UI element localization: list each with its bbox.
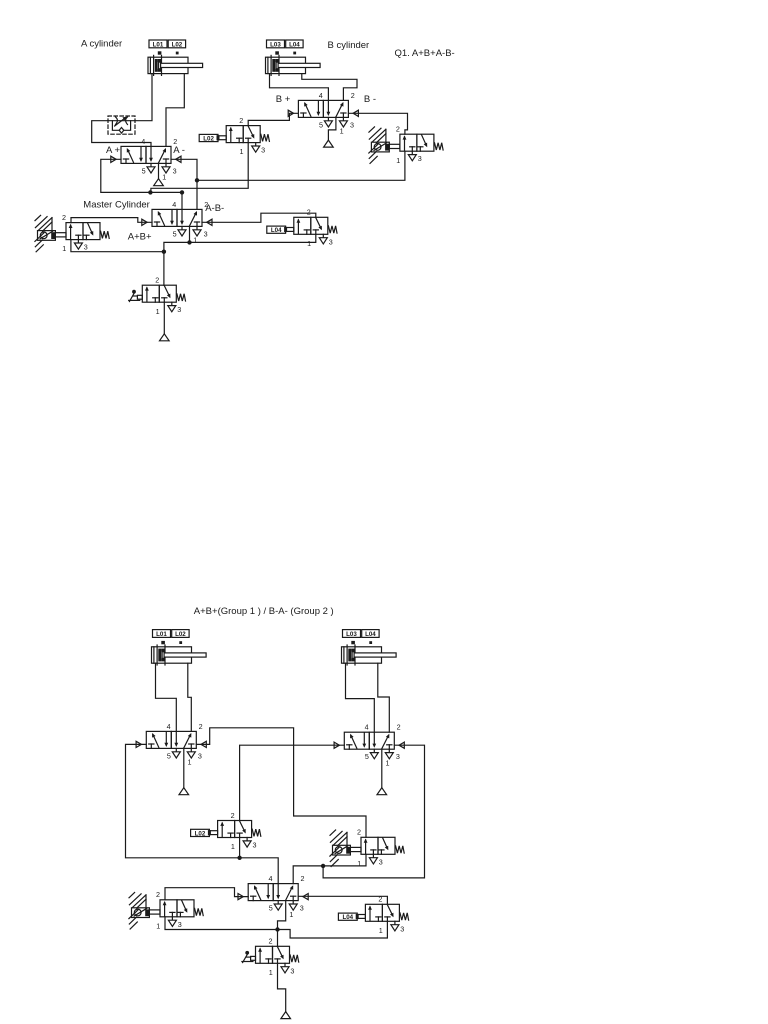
svg-text:2: 2 [351, 91, 355, 100]
svg-text:L03: L03 [270, 41, 281, 48]
sensor tags L03/L04 [343, 630, 380, 645]
junction [195, 178, 199, 182]
wire supply bus to wall valve a port 1 [71, 240, 164, 252]
svg-text:3: 3 [400, 924, 404, 933]
wire L02 valve port 1 to group1 bus [151, 143, 248, 193]
wire button valve 2 port 1 to supply [278, 963, 286, 1011]
sensor tags L01/L02 [153, 630, 190, 645]
5/2-way double pilot valve B [298, 91, 354, 136]
supply for valve B [324, 117, 336, 147]
svg-text:A -: A - [173, 145, 185, 156]
one-way flow control valve [108, 116, 135, 134]
pilot arrow master2 right [303, 894, 308, 900]
wire cylinder B2 left port to valve port 4 [346, 663, 375, 732]
wire A+ pilot from group1 bus [101, 159, 151, 192]
junction [180, 190, 184, 194]
double-acting cylinder B [266, 55, 321, 75]
svg-text:3: 3 [329, 237, 333, 246]
svg-text:4: 4 [365, 723, 369, 732]
svg-text:4: 4 [319, 91, 323, 100]
svg-text:L04: L04 [342, 914, 353, 921]
double-acting cylinder B2 [342, 645, 397, 665]
wire group1 bus to master port 4 [150, 192, 182, 209]
svg-text:3: 3 [261, 146, 265, 155]
svg-text:5: 5 [167, 751, 171, 760]
5/2-way double pilot valve A2 [146, 722, 202, 767]
svg-text:2: 2 [301, 874, 305, 883]
3/2-way valve roller a (wall) left [62, 213, 109, 253]
roller tag L04 [267, 226, 294, 234]
svg-text:2: 2 [231, 811, 235, 820]
svg-text:1: 1 [231, 842, 235, 851]
wire L04 port 2 to master right pilot [202, 213, 316, 222]
pilot arrow master2 left [238, 894, 243, 900]
svg-text:1: 1 [156, 921, 160, 930]
wire L04 valve 2 port 2 to master2 right pilot [298, 896, 387, 904]
wire wall valve a2 port 2 to master2 left pilot [165, 888, 248, 900]
svg-text:L04: L04 [289, 41, 300, 48]
svg-text:Master Cylinder: Master Cylinder [83, 200, 150, 211]
junction [237, 856, 241, 860]
svg-text:B cylinder: B cylinder [328, 40, 370, 51]
supply for valve A2 [179, 748, 189, 794]
pilot arrow valve A2 right [201, 741, 206, 747]
wire group2 bus to wall valve b port 1 [197, 151, 405, 180]
svg-text:2: 2 [397, 723, 401, 732]
wire supply bus 2 to L04 valve 2 port 1 [278, 921, 388, 938]
svg-text:3: 3 [290, 966, 294, 975]
svg-text:1: 1 [62, 244, 66, 253]
wire valve B port 2 to cylinder B right port [302, 74, 357, 101]
wire cylinder A left port to flow control [135, 74, 152, 121]
roller tag L02 [199, 134, 226, 142]
junction [148, 190, 152, 194]
roller against wall [330, 830, 361, 867]
pilot arrow master left [142, 219, 147, 225]
svg-text:2: 2 [239, 116, 243, 125]
svg-text:A cylinder: A cylinder [81, 39, 122, 50]
svg-text:2: 2 [269, 937, 273, 946]
svg-text:B -: B - [364, 94, 376, 105]
sensor tags L01/L02 [149, 40, 186, 55]
svg-text:L01: L01 [153, 41, 164, 48]
svg-text:5: 5 [142, 166, 146, 175]
wire supply bus left [164, 242, 190, 251]
wire valve B port 4 to cylinder B left port [270, 74, 329, 101]
wire cylinder A2 left port to valve port 4 [156, 663, 177, 731]
roller against wall [369, 127, 400, 163]
3/2-way valve L04 roller [294, 208, 337, 248]
junction [162, 250, 166, 254]
svg-text:5: 5 [173, 229, 177, 238]
3/2-way valve start button 2 [256, 937, 299, 977]
svg-text:2: 2 [62, 213, 66, 222]
wire supply bus 2 to button valve 2 port 2 [277, 930, 279, 947]
svg-text:2: 2 [396, 125, 400, 134]
wire flow control to valve A port 4 [92, 121, 151, 147]
svg-text:1: 1 [269, 968, 273, 977]
roller against wall [129, 893, 160, 930]
svg-text:L03: L03 [346, 631, 357, 638]
junction [275, 927, 279, 931]
supply for button valve [160, 302, 170, 341]
svg-text:A +: A + [106, 145, 120, 156]
pilot arrow valve B2 left [334, 742, 339, 748]
svg-text:L02: L02 [195, 830, 206, 837]
svg-text:4: 4 [141, 137, 145, 146]
svg-text:3: 3 [204, 229, 208, 238]
supply for button valve 2 [281, 1012, 291, 1019]
svg-text:2: 2 [156, 890, 160, 899]
5/2-way double pilot valve B2 [344, 723, 400, 768]
3/2-way valve roller b (wall) right [396, 125, 443, 165]
svg-text:3: 3 [300, 904, 304, 913]
wire wall valve a port 2 to master left pilot [71, 218, 152, 223]
svg-text:1: 1 [162, 173, 166, 182]
svg-text:1: 1 [240, 147, 244, 156]
pilot arrow valve A2 left [136, 741, 141, 747]
wire cylinder B2 right port to valve port 2 [378, 663, 390, 732]
svg-text:1: 1 [357, 859, 361, 868]
svg-text:L04: L04 [365, 631, 376, 638]
roller tag L04 [338, 913, 365, 921]
wire L02 valve port 2 to B+ pilot [248, 113, 298, 125]
roller tag L02 [191, 829, 218, 837]
svg-text:1: 1 [396, 156, 400, 165]
svg-text:3: 3 [178, 920, 182, 929]
svg-text:1: 1 [156, 307, 160, 316]
svg-text:2: 2 [307, 208, 311, 217]
pilot arrow valve B2 right [399, 742, 404, 748]
svg-text:4: 4 [172, 200, 176, 209]
3/2-way valve L04 roller 2 [365, 895, 408, 935]
double-acting cylinder A2 [152, 645, 207, 665]
svg-text:3: 3 [396, 752, 400, 761]
junction [187, 240, 191, 244]
double-acting cylinder A [148, 55, 203, 75]
wire supply bus to button valve port 2 [163, 252, 165, 286]
pilot arrow B+ [288, 110, 293, 116]
pilot arrow A- [176, 156, 181, 162]
svg-text:L02: L02 [175, 631, 186, 638]
wire master2 port 2 to wall valve b2 port 1 [293, 854, 366, 883]
svg-text:Q1. A+B+A-B-: Q1. A+B+A-B- [395, 48, 455, 59]
wire master port 1 down [189, 226, 191, 242]
svg-text:3: 3 [418, 154, 422, 163]
svg-text:3: 3 [173, 166, 177, 175]
junction [321, 864, 325, 868]
svg-text:2: 2 [155, 276, 159, 285]
svg-text:3: 3 [379, 857, 383, 866]
wire L02 valve 2 port 1 to group1 bus [239, 838, 241, 858]
wire valve A port 2 to cylinder A right port [166, 74, 184, 147]
svg-text:1: 1 [289, 910, 293, 919]
svg-text:2: 2 [357, 828, 361, 837]
svg-text:L04: L04 [271, 227, 282, 234]
wire master2 port 1 down [278, 901, 286, 930]
svg-text:1: 1 [307, 239, 311, 248]
svg-text:1: 1 [188, 758, 192, 767]
svg-text:L02: L02 [203, 135, 214, 142]
wire supply bus to L04 port 1 [190, 234, 316, 242]
3/2-way valve L02 roller 2 [218, 811, 261, 851]
5/2-way double pilot valve Master2 [248, 874, 304, 919]
supply for valve B2 [377, 749, 387, 795]
svg-text:1: 1 [386, 758, 390, 767]
3/2-way valve roller wall a2 [156, 890, 203, 930]
svg-text:1: 1 [340, 127, 344, 136]
5/2-way double pilot valve A [121, 137, 177, 182]
svg-text:3: 3 [84, 243, 88, 252]
svg-text:3: 3 [350, 120, 354, 129]
wire group1 bus to master2 port 4 [126, 744, 279, 883]
svg-text:L02: L02 [172, 41, 183, 48]
wire supply bus 2 to wall valve a2 port 1 [165, 917, 278, 930]
3/2-way valve L02 roller [226, 116, 269, 156]
wire A- pilot to master port 2 [171, 159, 197, 209]
wire wall valve b port 2 to B- pilot [348, 113, 407, 134]
svg-text:4: 4 [269, 874, 273, 883]
svg-text:3: 3 [198, 751, 202, 760]
svg-text:3: 3 [177, 305, 181, 314]
manual button actuator [242, 951, 256, 963]
roller against wall [35, 215, 66, 252]
svg-text:1: 1 [379, 926, 383, 935]
svg-text:L01: L01 [156, 631, 167, 638]
svg-text:B +: B + [276, 94, 291, 105]
svg-text:5: 5 [365, 752, 369, 761]
wire cylinder A2 right port to valve port 2 [188, 663, 192, 731]
pilot arrow A+ [111, 156, 116, 162]
svg-text:A+B+: A+B+ [128, 231, 152, 242]
svg-text:A-B-: A-B- [205, 203, 224, 214]
5/2-way double pilot valve Master [152, 200, 208, 245]
wire group2 bus to B2- pilot [323, 745, 424, 878]
pilot arrow master right [207, 219, 212, 225]
supply for valve A [154, 163, 164, 185]
pilot arrow B- [353, 110, 358, 116]
3/2-way valve roller wall b2 [357, 828, 404, 868]
3/2-way valve start button [142, 276, 185, 316]
svg-text:4: 4 [167, 722, 171, 731]
svg-text:5: 5 [319, 120, 323, 129]
svg-text:A+B+(Group 1 ) / B-A- (Group 2: A+B+(Group 1 ) / B-A- (Group 2 ) [194, 606, 334, 617]
wire wall valve b2 port 2 to A2- pilot [196, 728, 366, 838]
svg-text:3: 3 [253, 841, 257, 850]
wire L02 valve 2 port 2 to B2+ pilot [240, 745, 345, 820]
sensor tags L03/L04 [267, 40, 304, 55]
svg-text:2: 2 [199, 722, 203, 731]
manual button actuator [129, 290, 143, 302]
svg-text:5: 5 [269, 904, 273, 913]
svg-text:1: 1 [193, 236, 197, 245]
